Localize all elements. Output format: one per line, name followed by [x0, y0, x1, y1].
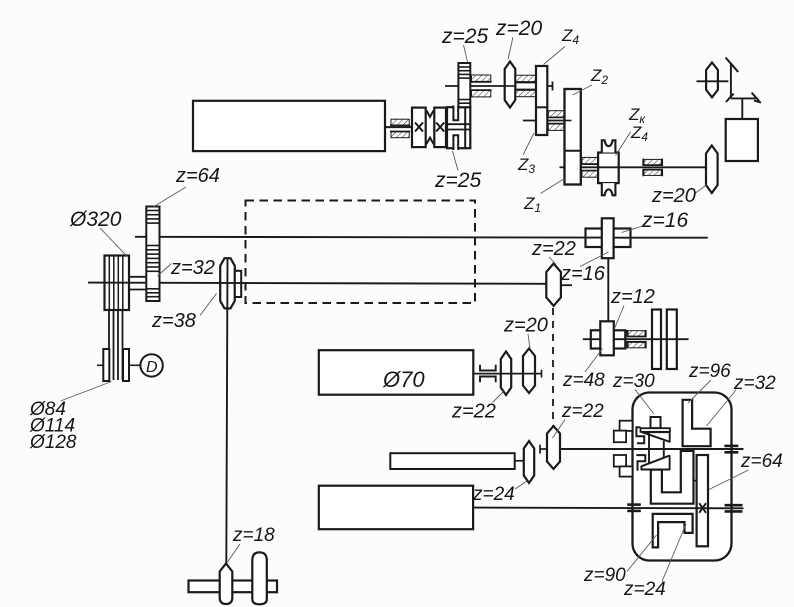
gear z=22 lens on shaft VI — [546, 264, 561, 306]
bearing bars apron lower right — [725, 504, 743, 507]
motor pulley shaft — [97, 364, 104, 366]
sliding gear block z=25 — [447, 107, 470, 148]
apron upper shaft stub — [540, 448, 548, 450]
lens z=22 at feed box — [501, 352, 511, 396]
svg-text:z=16: z=16 — [641, 209, 688, 232]
gear z=90 U channel — [651, 451, 694, 504]
tumbler wedge lower — [641, 456, 669, 470]
cross gear z=16 vertical sleeve — [602, 218, 614, 258]
fork slot top — [453, 105, 458, 120]
dashed link line node — [552, 308, 554, 428]
leader lines — [61, 37, 749, 582]
nut line horizontal — [731, 97, 758, 99]
lens z=20 bed right — [706, 146, 718, 194]
svg-text:z=30: z=30 — [612, 371, 655, 392]
svg-text:Ø128: Ø128 — [29, 432, 77, 453]
shaft II spline double line — [516, 82, 537, 84]
gear z=64 tall bar — [697, 455, 708, 546]
shaft III line — [523, 120, 571, 122]
gear block Z2 / Z1 — [565, 89, 581, 185]
gear block z=64 / z=32 striped — [146, 207, 159, 302]
svg-text:z=32: z=32 — [733, 373, 776, 394]
svg-text:z=18: z=18 — [232, 525, 275, 546]
shaft II right stub — [547, 85, 552, 87]
cross gear z=16 horizontal rect — [586, 229, 631, 248]
svg-text:z=32: z=32 — [170, 257, 215, 279]
twin gears z=30 pair rect A — [652, 310, 661, 370]
tumbler link line A — [648, 433, 650, 467]
step stub to z=64 bar — [694, 480, 697, 482]
tumbler crossbar — [641, 428, 670, 432]
worm wheel Z4 top jaw — [602, 140, 616, 152]
pulley Ø320 — [105, 256, 130, 311]
svg-text:z=96: z=96 — [688, 361, 731, 382]
tumbler bracket upper (5-shape) — [636, 427, 644, 443]
shaft of z=48 — [583, 338, 689, 340]
svg-text:z=12: z=12 — [610, 286, 655, 308]
twin gears rect B — [667, 310, 677, 370]
rack bar bottom — [189, 581, 278, 593]
motor symbol D circle — [140, 354, 162, 376]
worm shaft line — [581, 166, 707, 168]
svg-text:z=22: z=22 — [451, 401, 496, 423]
svg-text:z=25: z=25 — [434, 169, 481, 192]
svg-text:z=25: z=25 — [441, 25, 488, 48]
cross-feed screw vertical — [730, 64, 732, 99]
bearing bars apron upper right — [724, 445, 738, 448]
bearing right of z=25 — [471, 75, 492, 97]
shaft I motor shaft — [384, 126, 413, 128]
lens z=22 apron input — [547, 426, 560, 469]
svg-text:z=22: z=22 — [561, 401, 604, 422]
coupling sleeve at feed box — [480, 365, 496, 382]
tumbler link line B — [663, 441, 665, 458]
worm shaft left stub — [560, 166, 565, 168]
motor box M — [193, 101, 385, 151]
tumbler gear z=30 stub — [651, 417, 661, 428]
gear z=96 L shape — [683, 400, 711, 446]
apron gearbox rounded housing — [633, 393, 732, 561]
leadscrew z=24 box — [319, 486, 473, 530]
box Ø70 — [319, 350, 474, 395]
bearing on shaft I — [390, 119, 410, 138]
gear z=38 lens — [220, 258, 235, 308]
pulley flange right — [123, 349, 129, 381]
spring element zigzag — [426, 111, 433, 117]
hub lines pulley to gear z=32 — [129, 276, 147, 278]
link to table — [741, 98, 743, 119]
bearing bars apron lower left — [627, 503, 641, 506]
splined gear z=25 — [458, 63, 470, 107]
spline bushing on z=48 shaft — [627, 330, 646, 348]
svg-text:z=64: z=64 — [175, 165, 220, 187]
apron wall bearing blocks upper shaft — [614, 421, 633, 477]
spline bushing between z=20 and Z4 — [516, 75, 536, 97]
svg-text:z=20: z=20 — [651, 185, 696, 207]
pulley Ø84/114/128 flange left — [103, 349, 109, 381]
lower long shaft VI — [88, 283, 546, 284]
svg-text:z=64: z=64 — [740, 451, 783, 472]
gear z=18 capsule — [220, 564, 233, 605]
svg-text:z=16: z=16 — [560, 263, 606, 285]
hub stub right of z=22 — [561, 284, 573, 286]
gear block Z4 / Z3 — [536, 66, 547, 135]
coupling half 2 with X — [434, 108, 446, 148]
svg-text:z=24: z=24 — [472, 484, 515, 505]
fork slot bottom — [453, 135, 458, 150]
pinion capsule right — [252, 552, 266, 604]
svg-text:z=38: z=38 — [151, 310, 196, 332]
spline bushing Z1 to worm — [582, 157, 598, 177]
svg-text:D: D — [146, 359, 158, 376]
worm wheel bottom jaw — [602, 183, 616, 195]
lens on feed rod — [524, 441, 534, 483]
vertical drive z=38 to z=18 — [226, 258, 227, 564]
bearing on worm shaft — [643, 159, 662, 177]
worm wheel hub rect — [598, 153, 619, 184]
gear z=24 Pi shape — [653, 514, 693, 548]
spline bushing Z3 to Z2 — [548, 111, 564, 131]
tumbler bracket lower (7-shape) — [636, 455, 645, 471]
svg-text:z=22: z=22 — [531, 238, 576, 260]
carriage table box top right — [726, 119, 758, 161]
thin feed rod box — [390, 453, 514, 469]
spindle shaft V long line — [135, 236, 602, 239]
cross gear z=48/z=12 vertical sleeve — [600, 321, 614, 355]
lens gear top right — [706, 63, 718, 98]
hub of z=38 — [235, 271, 241, 297]
coupling half 1 with X — [412, 108, 426, 148]
top right cross-feed shaft — [697, 80, 729, 82]
dashed feed box (headstock outline) — [246, 201, 476, 304]
apron lower shaft (leadscrew) — [473, 507, 744, 510]
feed rod stub line — [515, 460, 525, 462]
svg-text:z=20: z=20 — [495, 17, 542, 40]
tumbler wedge upper — [642, 432, 670, 442]
clutch x mark on z=64 — [699, 503, 706, 513]
redraw lower shaft through bar — [697, 507, 708, 509]
feed box shaft — [473, 373, 542, 375]
svg-text:Ø70: Ø70 — [382, 367, 425, 392]
belt lines — [109, 256, 123, 380]
cross gear z=48 horizontal rect — [591, 330, 626, 348]
svg-text:Ø320: Ø320 — [69, 208, 122, 231]
lens z=20 at feed box — [523, 349, 535, 394]
svg-text:z=24: z=24 — [623, 579, 666, 600]
shaft II line — [445, 85, 505, 87]
apron upper shaft — [560, 448, 744, 450]
svg-text:z=48: z=48 — [562, 370, 605, 391]
svg-text:z=90: z=90 — [583, 565, 626, 586]
vertical link z=16 to z=48 — [607, 258, 609, 322]
svg-text:z=20: z=20 — [503, 315, 548, 337]
screw hook marks top — [726, 58, 762, 103]
gear z=20 lens on shaft II — [505, 62, 516, 108]
